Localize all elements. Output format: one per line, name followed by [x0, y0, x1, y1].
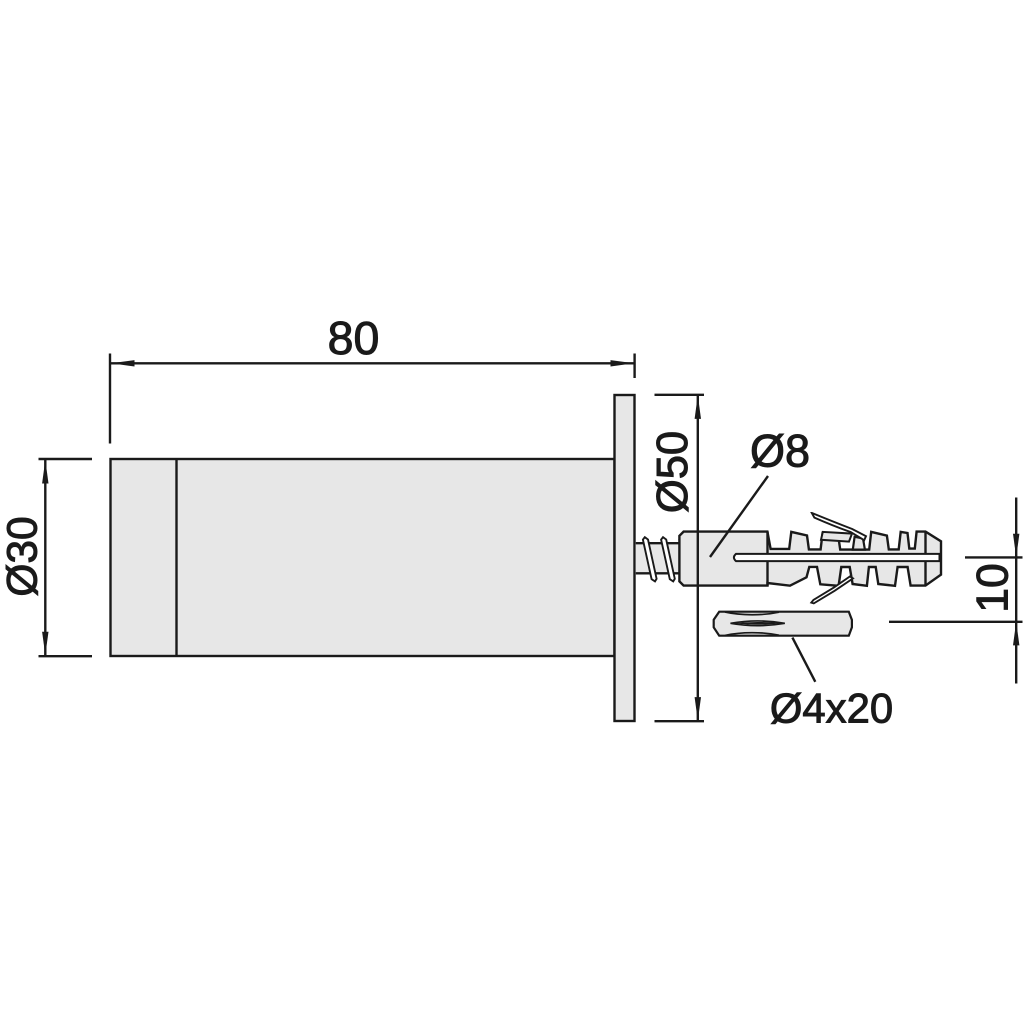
svg-text:Ø50: Ø50	[649, 431, 697, 513]
dimension 80: dim line	[111, 362, 634, 364]
svg-text:80: 80	[328, 312, 380, 364]
svg-text:10: 10	[969, 563, 1018, 613]
wall plate	[615, 395, 635, 721]
small dowel bottom seam	[725, 633, 779, 636]
small dowel top seam	[725, 612, 779, 615]
small dowel slit lens	[731, 621, 785, 626]
dimension 10: extension bottom	[889, 621, 1023, 623]
leader D4x20	[792, 638, 815, 682]
dimension 80: extension line left	[109, 354, 111, 444]
cylinder body	[111, 459, 615, 656]
dimension D50: dim line	[697, 395, 699, 720]
dimension 80: left arrow	[111, 360, 135, 366]
dimension D50: extension bottom	[655, 720, 705, 722]
dimension D50: extension top	[655, 394, 705, 396]
dimension 10: extension top	[965, 556, 1023, 558]
dimension 80: extension line right	[633, 354, 635, 379]
dimension 10: top arrow	[1013, 534, 1019, 558]
anchor top wing base flap	[821, 532, 852, 542]
screw shank	[636, 543, 680, 573]
wall plug (anchor) body	[679, 532, 941, 586]
anchor collar edge	[766, 532, 768, 586]
screw thread crest 3 (partial, behind anchor collar)	[679, 537, 693, 581]
screw thread crest 2	[661, 537, 675, 581]
anchor slot	[734, 554, 940, 561]
dimension D30: dim line	[44, 460, 46, 656]
dimension D30: extension bottom	[39, 655, 93, 657]
leader D8	[710, 476, 768, 557]
dimension D30: top arrow	[42, 460, 48, 484]
svg-text:Ø8: Ø8	[750, 426, 810, 477]
anchor top wing	[812, 513, 866, 540]
anchor nose edge	[924, 532, 926, 586]
dimension D30: extension top	[39, 458, 93, 460]
screw thread crest 1	[643, 537, 657, 581]
svg-text:Ø4x20: Ø4x20	[770, 684, 893, 731]
dimension 10: bottom arrow	[1013, 622, 1019, 646]
cylinder cap line	[175, 459, 177, 656]
dimension 10: dim line	[1015, 498, 1017, 684]
small dowel body	[714, 612, 852, 636]
dimension D30: bottom arrow	[42, 632, 48, 656]
anchor bottom wing	[811, 576, 853, 603]
dimension D50: bottom arrow	[695, 697, 701, 721]
dimension 80: right arrow	[611, 360, 635, 366]
svg-text:Ø30: Ø30	[0, 516, 47, 596]
dimension D50: top arrow	[695, 395, 701, 419]
anchor rib under top wing	[853, 537, 865, 550]
